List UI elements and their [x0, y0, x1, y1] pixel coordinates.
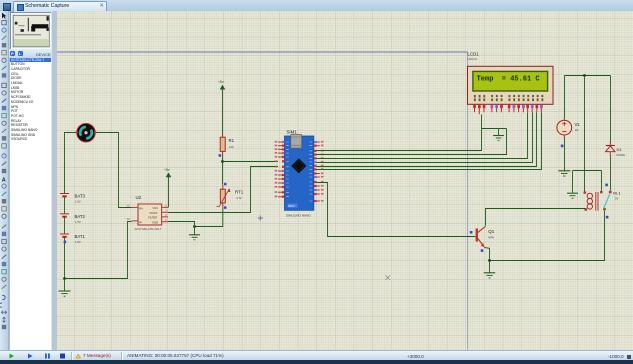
svg-text:+5v: +5v — [218, 80, 224, 84]
svg-text:NPN: NPN — [488, 235, 494, 239]
svg-text:IP+: IP+ — [139, 206, 143, 210]
wire SIM1 D7 to LCD D7 — [316, 112, 541, 169]
LCD pins VSS VDD VEE — [473, 104, 485, 114]
svg-text:10k: 10k — [229, 145, 234, 149]
ground Q1 — [484, 261, 495, 279]
devices header — [9, 49, 51, 58]
left toolbar icons — [0, 11, 9, 350]
svg-text:SIMULINO NANO: SIMULINO NANO — [286, 214, 311, 218]
junction battery bottom — [63, 277, 66, 280]
splitter — [51, 11, 58, 350]
wire RT1 bottom to ground rail — [195, 207, 223, 226]
probe dot Q1 base — [470, 231, 473, 234]
wire V1 bottom to ground — [564, 138, 566, 168]
wire aux rail to ground — [572, 171, 574, 193]
resistor R1 — [220, 134, 225, 155]
tab bar — [0, 0, 633, 12]
svg-text:SIM1: SIM1 — [287, 129, 298, 134]
junction R1/RT1 — [221, 160, 224, 163]
wire junction to SIM1 A0 — [223, 161, 278, 163]
status bar — [0, 350, 633, 361]
thermistor RT1 — [217, 185, 231, 207]
svg-text:5V: 5V — [615, 197, 619, 201]
svg-text:1.5V: 1.5V — [75, 240, 81, 244]
wire emitter to junction — [484, 248, 489, 261]
bottom navy strip — [0, 360, 633, 364]
transistor Q1 — [475, 226, 486, 247]
svg-text:LCD1: LCD1 — [467, 52, 479, 57]
wire LCD VDD drop — [481, 115, 483, 129]
ground relay — [567, 193, 578, 198]
wire U2 VIOUT to SIM1 A1 — [168, 167, 278, 213]
svg-text:D1: D1 — [617, 147, 623, 152]
svg-text:A: A — [2, 177, 6, 183]
svg-text:R1: R1 — [229, 138, 235, 143]
svg-text:ACS712ELCTR-20A-T: ACS712ELCTR-20A-T — [135, 227, 162, 231]
svg-text:IP-: IP- — [139, 220, 142, 224]
ground U2 — [189, 227, 200, 240]
wire battery top to speaker — [65, 133, 77, 194]
svg-text:BAT2: BAT2 — [75, 214, 86, 219]
origin marker — [258, 216, 263, 221]
wire D1 to relay switch pole — [610, 155, 612, 191]
op-amp U2 ACS712 — [132, 204, 169, 225]
svg-text:V1: V1 — [575, 122, 581, 127]
battery BAT3 — [60, 194, 69, 214]
svg-text:4.7k: 4.7k — [236, 196, 242, 200]
wire coil bottom to Q1 collector — [486, 209, 586, 226]
svg-text:VIOUT: VIOUT — [150, 211, 158, 215]
wire SIM1 D4 to LCD D4 — [316, 112, 527, 158]
junction emitter — [488, 259, 491, 262]
wire SIM1 D9 to Q1 base — [316, 183, 474, 237]
svg-text:GND: GND — [152, 221, 158, 225]
wire SIM1 D5 to LCD D5 — [316, 112, 532, 162]
battery BAT2 — [60, 214, 69, 234]
probe dot V1 — [561, 145, 564, 148]
svg-text:RT1: RT1 — [235, 190, 244, 195]
wire U2 GND pin to junction — [168, 222, 195, 227]
LCD rail wire — [482, 128, 507, 130]
wire rail to relay coil — [584, 76, 586, 193]
svg-text:Q1: Q1 — [488, 229, 494, 234]
wire SIM1 D2 to LCD RS — [316, 129, 481, 151]
SIM1 board pin name silk — [286, 142, 312, 201]
LCD pins D0-D7 — [508, 104, 543, 112]
wire battery junction to U2 IP- — [65, 222, 132, 279]
node X cursor marker — [386, 276, 390, 280]
svg-text:+5v: +5v — [164, 168, 170, 172]
arduino SIM1 — [285, 135, 314, 211]
sheet border horizontal — [57, 51, 468, 53]
wire junction to RT1 — [222, 162, 224, 185]
svg-text:1.5V: 1.5V — [75, 200, 81, 204]
ground LCD — [493, 129, 504, 141]
probe dot BAT1 — [64, 241, 67, 244]
svg-text:9V: 9V — [575, 128, 579, 132]
wire aux rail to switch pin — [601, 171, 603, 191]
wire speaker to U2 IP+ — [95, 133, 131, 208]
svg-text:VCC: VCC — [153, 206, 159, 210]
svg-text:1.5V: 1.5V — [75, 220, 81, 224]
battery BAT1 — [60, 234, 69, 279]
SIM1 left pins — [278, 141, 285, 198]
wire SIM1 D3 to LCD E — [316, 129, 506, 155]
probe dot Q1 emitter — [481, 249, 484, 252]
svg-text:DIODE: DIODE — [617, 153, 626, 157]
wire rail to D1 — [610, 76, 612, 144]
diode D1 — [606, 142, 615, 156]
wire SIM1 D6 to LCD D6 — [316, 112, 536, 166]
power rail wire top — [565, 75, 611, 77]
svg-text:U2: U2 — [136, 195, 142, 200]
wire R1 to junction — [222, 155, 224, 162]
SIM1 right pins — [314, 141, 320, 202]
minimap overview — [10, 12, 52, 50]
wire V1 top to rail — [564, 76, 566, 118]
svg-text:RL1: RL1 — [613, 190, 621, 195]
probe dot relay bottom — [606, 216, 609, 219]
LCD pin name labels — [474, 95, 543, 101]
ground V1 — [558, 167, 570, 176]
LCD1 LM016L — [468, 66, 554, 104]
relay RL1 — [584, 191, 612, 211]
svg-text:FILTER: FILTER — [148, 216, 157, 220]
sheet border vertical — [467, 52, 469, 350]
speaker LS1 — [76, 123, 97, 142]
probe dot R1 bottom — [219, 154, 222, 157]
power +5v (R1) — [218, 80, 225, 134]
svg-text:BAT1: BAT1 — [75, 234, 86, 239]
svg-text:ARDU: ARDU — [288, 205, 295, 208]
junction U2 ground — [193, 225, 196, 228]
SIM1 pin numbers — [275, 141, 324, 202]
device list — [9, 58, 52, 350]
ground battery — [59, 279, 71, 297]
power +5v (U2 VCC) — [164, 168, 171, 208]
svg-text:LM016L: LM016L — [467, 57, 478, 61]
junction rail — [583, 74, 586, 77]
probe dot RT1 bottom — [224, 206, 227, 209]
svg-text:Temp = 45.61 C: Temp = 45.61 C — [477, 76, 540, 84]
svg-text:BAT3: BAT3 — [75, 194, 86, 199]
LCD pins RS RW E — [491, 104, 503, 112]
wire relay switch to emitter node — [490, 211, 605, 261]
probe dot relay top — [605, 184, 608, 187]
relay aux rail wire — [573, 170, 602, 172]
probe dot RT1 top — [224, 183, 227, 186]
vsource V1 — [557, 118, 572, 138]
